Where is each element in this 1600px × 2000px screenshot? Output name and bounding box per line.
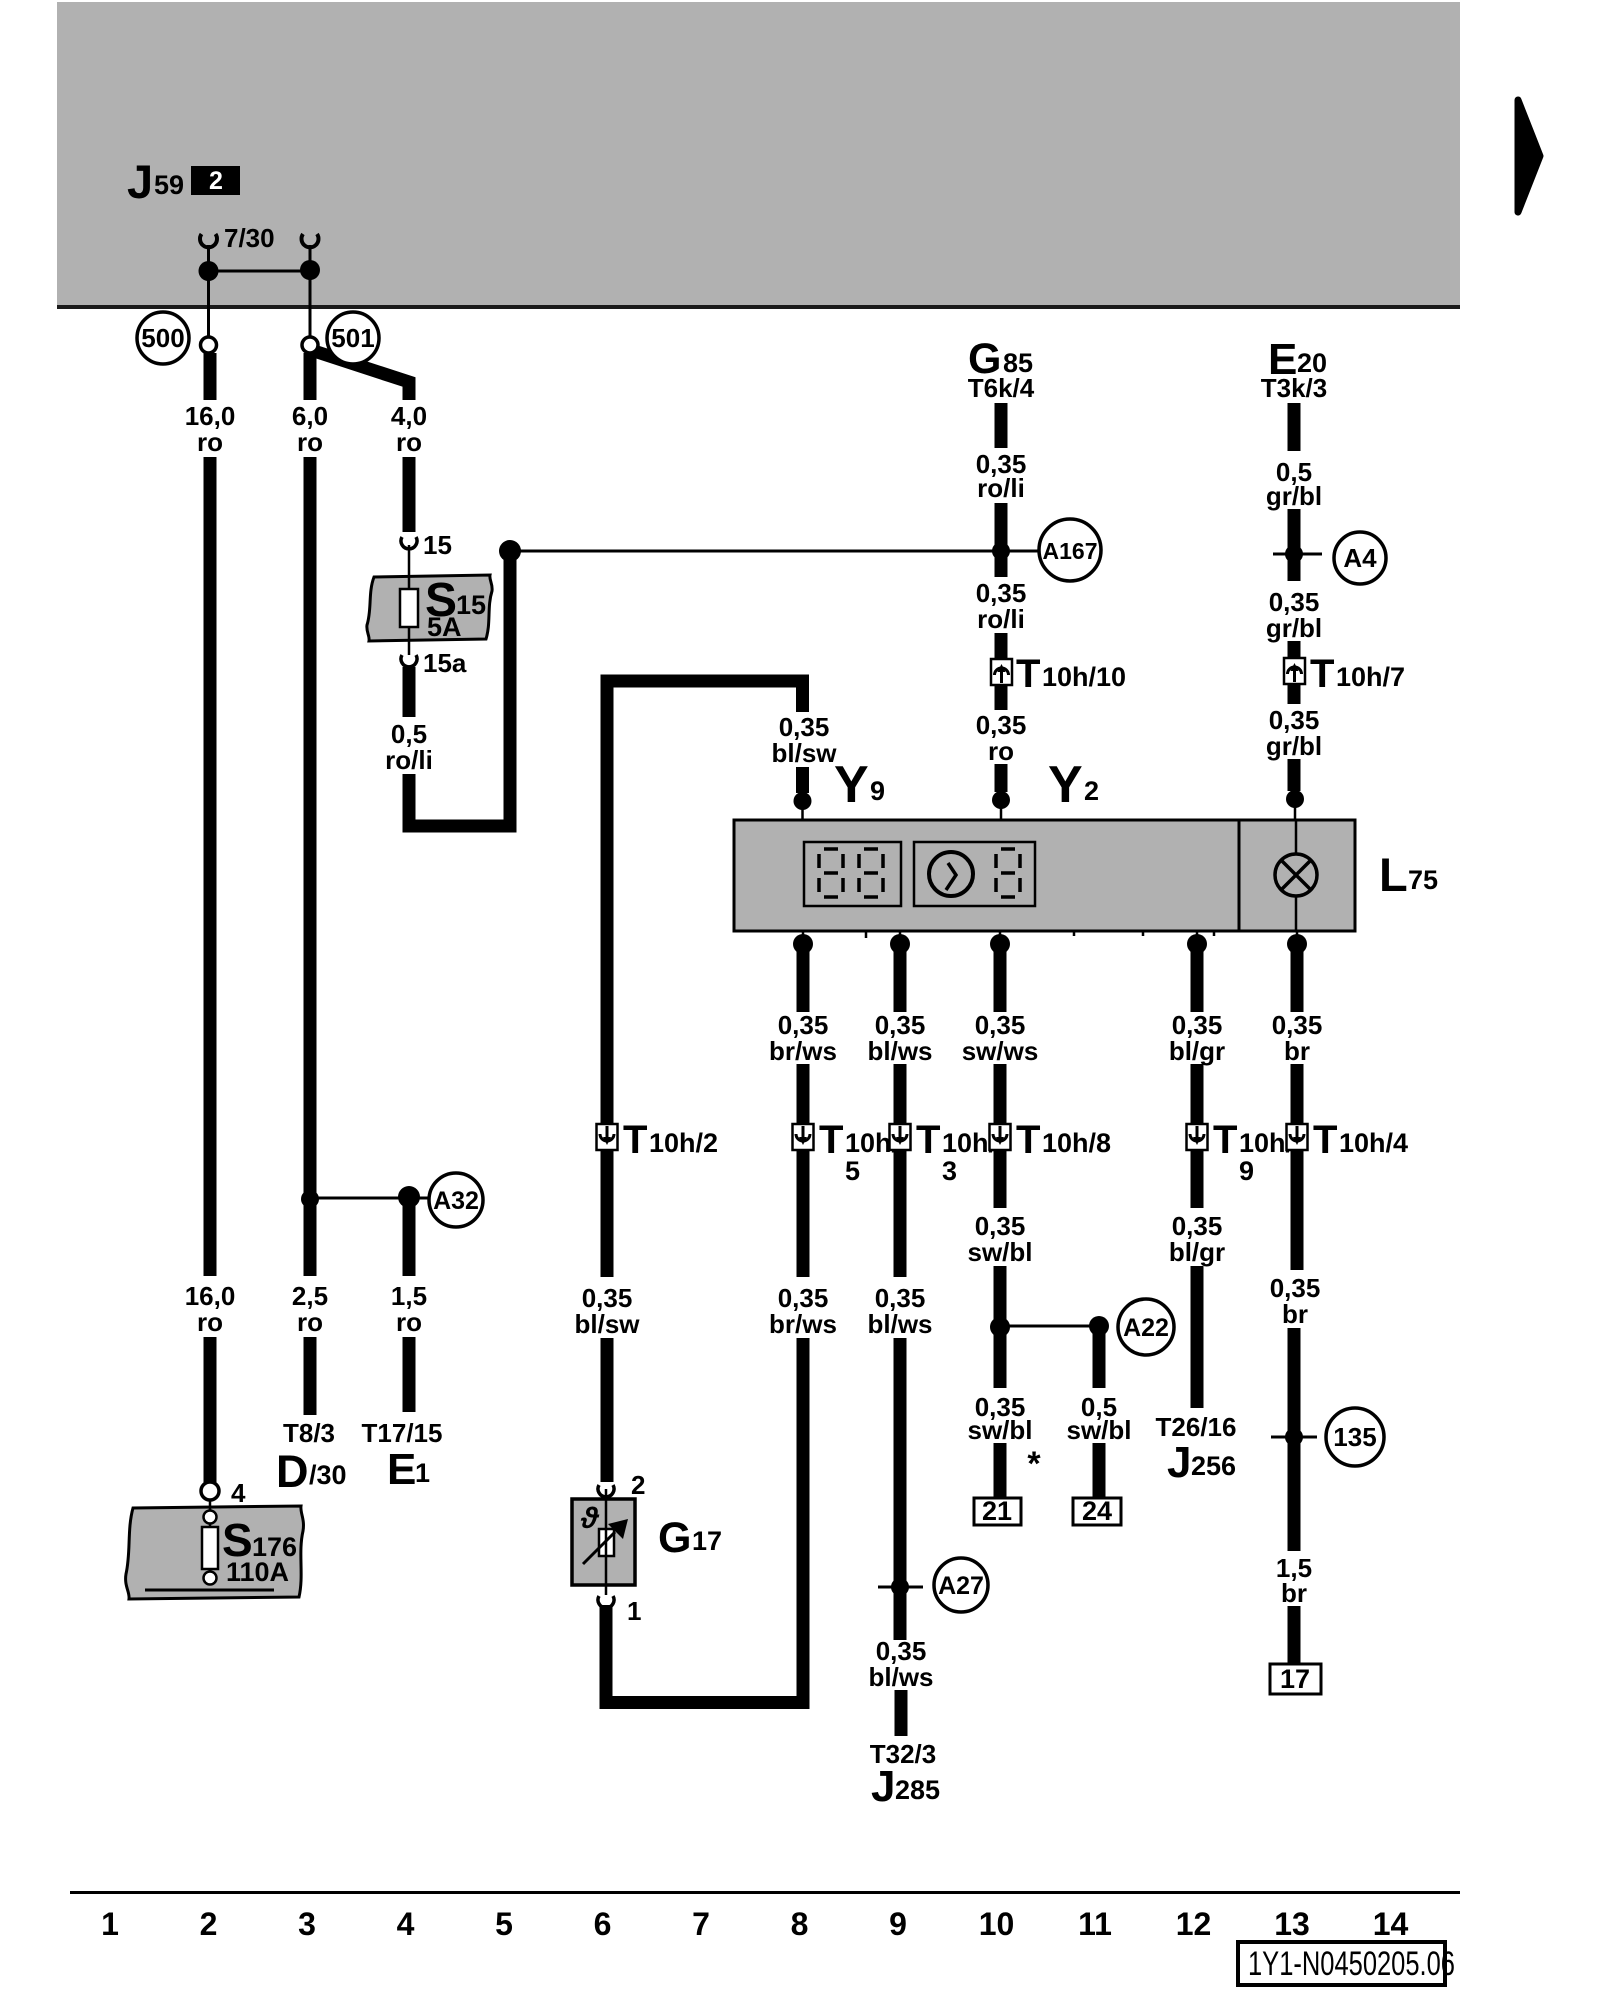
wire 0,35 ro/li to connector T10h/10: [995, 633, 1008, 660]
control unit J256 label: [1167, 1438, 1236, 1487]
svg-text:10h/2: 10h/2: [649, 1128, 718, 1158]
terminal arc pin 2 of G17: [598, 1485, 614, 1497]
label 0,35 gr/bl mid: [1266, 587, 1322, 643]
wire 0,35 br upper: [1291, 950, 1304, 1012]
svg-text:A4: A4: [1343, 543, 1377, 573]
terminal arc 15a of S15: [401, 655, 417, 667]
fuse S176 element: [202, 1500, 218, 1585]
ignition switch E1 label: [387, 1445, 430, 1494]
wire 0,35 bl/sw into Y9 pin: [796, 767, 809, 793]
label 1,5 br: [1276, 1553, 1312, 1608]
fuse S15 label: [425, 574, 486, 642]
svg-text:A27: A27: [938, 1572, 984, 1600]
svg-text:3: 3: [942, 1156, 957, 1186]
wire 0,5 gr/bl to junction A4: [1288, 509, 1301, 581]
pin dot L75 top: [1286, 790, 1304, 820]
svg-text:15: 15: [423, 530, 452, 560]
ground designation box 24: [1073, 1496, 1121, 1526]
junction crossbar A27: [878, 1586, 923, 1589]
svg-text:T: T: [1016, 652, 1040, 696]
svg-text:T: T: [1213, 1118, 1237, 1162]
svg-text:11: 11: [1078, 1906, 1112, 1942]
svg-text:bl/ws: bl/ws: [868, 1662, 933, 1692]
connector label T10h/10: [1016, 652, 1126, 696]
fuse S176 label: [222, 1514, 297, 1587]
lamp L75 symbol: [1275, 820, 1317, 931]
junction dot atop loop: [499, 540, 521, 562]
wire 16,0 ro lower run to S176: [204, 1337, 217, 1483]
svg-text:J: J: [871, 1762, 895, 1811]
fuse S15 element: [400, 545, 418, 655]
fuse S176 busbar line: [145, 1589, 274, 1592]
svg-text:D: D: [276, 1446, 309, 1497]
page continuation arrow: [1518, 100, 1540, 212]
wire 0,35 bl/ws to J285: [895, 1690, 908, 1736]
label 0,35 ro/li upper: [976, 449, 1027, 503]
svg-text:gr/bl: gr/bl: [1266, 731, 1322, 761]
svg-text:G: G: [658, 1514, 691, 1562]
label 0,35 sw/bl upper: [967, 1211, 1032, 1267]
svg-text:ro/li: ro/li: [977, 473, 1025, 503]
svg-text:T: T: [1313, 1118, 1337, 1162]
fuse S176 housing: [126, 1506, 304, 1599]
svg-text:110A: 110A: [226, 1557, 289, 1587]
wire 0,5 gr/bl from E20: [1288, 403, 1301, 451]
wire 0,5 ro/li stub below S15: [403, 667, 416, 717]
svg-text:sw/bl: sw/bl: [1066, 1415, 1131, 1445]
display Y9 seven-segment window: [804, 842, 901, 906]
sender G85 label: [968, 335, 1033, 383]
svg-text:ro: ro: [988, 736, 1014, 766]
svg-text:T6k/4: T6k/4: [968, 373, 1035, 403]
svg-text:1: 1: [101, 1906, 119, 1942]
current track baseline: [70, 1891, 1460, 1894]
svg-text:10h/8: 10h/8: [1042, 1128, 1111, 1158]
wire 0,5 ro/li loop down right and up to A167 link: [409, 555, 510, 826]
wire 2,5 ro lower run: [304, 1337, 317, 1415]
svg-text:A32: A32: [433, 1187, 479, 1215]
connection circle A32: [429, 1173, 483, 1227]
pin dot L75 bottom right: [1287, 931, 1307, 954]
wire 0,35 ro/li to junction A167: [995, 503, 1008, 577]
junction dot A22 on sw/bl wire: [990, 1317, 1010, 1337]
svg-text:8: 8: [791, 1906, 809, 1942]
wire 0,5 sw/bl to eyelet 24: [1093, 1443, 1106, 1500]
svg-text:2: 2: [631, 1470, 645, 1500]
svg-text:10: 10: [979, 1906, 1015, 1942]
svg-text:bl/sw: bl/sw: [574, 1309, 640, 1339]
wire 0,35 ro below connector: [995, 684, 1008, 710]
svg-text:sw/ws: sw/ws: [962, 1036, 1039, 1066]
svg-text:ro: ro: [297, 1307, 323, 1337]
svg-text:T: T: [1016, 1118, 1040, 1162]
sender G17 internal wire: [605, 1489, 608, 1595]
label 0,5 ro/li: [385, 719, 433, 775]
svg-text:bl/gr: bl/gr: [1169, 1237, 1225, 1267]
svg-text:6: 6: [594, 1906, 612, 1942]
svg-text:T: T: [819, 1118, 843, 1162]
svg-text:ro/li: ro/li: [385, 745, 433, 775]
svg-text:24: 24: [1082, 1496, 1112, 1526]
svg-text:bl/ws: bl/ws: [867, 1309, 932, 1339]
svg-text:T3k/3: T3k/3: [1261, 373, 1328, 403]
svg-text:E: E: [387, 1445, 416, 1494]
ground designation box 21: [974, 1496, 1021, 1526]
illumination sender E20 label: [1268, 335, 1327, 384]
wire from right 7/30 pin down to terminal 501: [309, 245, 312, 338]
svg-text:10h/7: 10h/7: [1336, 662, 1405, 692]
svg-text:A167: A167: [1043, 538, 1098, 564]
svg-text:bl/sw: bl/sw: [771, 738, 837, 768]
svg-text:ro: ro: [197, 427, 223, 457]
connector T10h/8 symbol: [990, 1124, 1011, 1150]
svg-text:12: 12: [1176, 1906, 1212, 1942]
connection circle A27: [934, 1558, 988, 1612]
svg-text:ϑ: ϑ: [580, 1502, 600, 1535]
connection circle A167: [1039, 519, 1101, 581]
junction dot start of 1,5 ro branch: [398, 1186, 420, 1208]
svg-text:sw/bl: sw/bl: [967, 1237, 1032, 1267]
wire link to A22: [1000, 1325, 1099, 1328]
svg-text:501: 501: [331, 323, 374, 353]
svg-text:br/ws: br/ws: [769, 1036, 837, 1066]
svg-text:10h/4: 10h/4: [1339, 1128, 1408, 1158]
diagram number box 1Y1-N0450205.06: [1238, 1942, 1455, 1985]
relay J59 label: [127, 155, 184, 208]
svg-text:br: br: [1281, 1578, 1307, 1608]
pin dot Y2 top: [992, 791, 1010, 820]
label 1,5 ro: [391, 1281, 427, 1337]
wire 0,35 bl/ws upper: [894, 950, 907, 1012]
wire 0,35 br to connector: [1291, 1064, 1304, 1126]
svg-text:bl/ws: bl/ws: [867, 1036, 932, 1066]
svg-text:ro: ro: [396, 1307, 422, 1337]
label 16,0 ro upper: [185, 401, 236, 457]
svg-text:Y: Y: [834, 756, 869, 814]
wire 4,0 ro diagonal branch from terminal 501: [311, 350, 409, 400]
junction dot A32 on 6,0 wire: [301, 1190, 319, 1208]
wire 0,35 ro/li from G85: [995, 403, 1008, 448]
svg-text:*: *: [1027, 1445, 1041, 1483]
wire 4,0 ro down to fuse S15: [403, 457, 416, 532]
wiring harness gray band: [57, 2, 1460, 309]
wire 0,35 bl/gr upper: [1191, 950, 1204, 1012]
svg-text:285: 285: [895, 1775, 940, 1805]
svg-text:5A: 5A: [427, 612, 462, 642]
pin dot L75 bottom left: [1187, 931, 1207, 954]
unused pin ticks on housing bottom edge: [866, 931, 1214, 938]
clock Y2 window: [914, 842, 1035, 906]
svg-text:135: 135: [1333, 1422, 1376, 1452]
connector T10h/2 symbol: [597, 1124, 618, 1150]
label 0,35 ro/li lower: [976, 578, 1027, 634]
wire 0,35 br/ws below connector: [797, 1149, 810, 1277]
wire 1,5 br to eyelet 17: [1288, 1606, 1301, 1666]
wire from left 7/30 pin down to terminal 500: [207, 245, 210, 338]
label 0,35 sw/ws: [962, 1010, 1039, 1066]
wire 6,0 ro upper stub: [304, 353, 317, 400]
svg-text:4: 4: [397, 1906, 415, 1942]
label 0,35 br/ws lower: [769, 1283, 837, 1339]
svg-text:br/ws: br/ws: [769, 1309, 837, 1339]
wire 0,35 bl/ws below connector: [894, 1149, 907, 1277]
wire 0,35 sw/bl through junction A22: [994, 1266, 1007, 1388]
label 4,0 ro: [391, 401, 427, 457]
svg-text:2: 2: [209, 167, 223, 195]
terminal eyelet 4 on S176: [201, 1482, 219, 1500]
wire 0,35 bl/gr to connector: [1191, 1064, 1204, 1126]
svg-text:17: 17: [692, 1526, 722, 1556]
wire 0,35 gr/bl below connector: [1288, 684, 1301, 704]
wire 1,5 ro branch run: [403, 1203, 416, 1276]
svg-text:J: J: [1167, 1438, 1191, 1487]
wire jumper linking the two 7/30 pins: [209, 270, 311, 273]
svg-text:21: 21: [982, 1496, 1012, 1526]
svg-text:5: 5: [495, 1906, 513, 1942]
wire 0,35 br/ws to connector: [797, 1064, 810, 1126]
label 0,35 sw/bl lower: [967, 1392, 1032, 1445]
connector label T10h/ 5: [819, 1118, 900, 1186]
terminal arc 7/30 right pin of J59: [301, 234, 318, 247]
svg-text:A22: A22: [1123, 1314, 1169, 1342]
ground designation box 17: [1270, 1664, 1321, 1694]
terminal eyelet 500: [201, 337, 217, 353]
connector label T10h/ 9: [1213, 1118, 1294, 1186]
svg-text:14: 14: [1373, 1906, 1409, 1942]
svg-text:L: L: [1379, 848, 1408, 901]
current track numbers 1-14: [101, 1906, 1408, 1942]
svg-text:7: 7: [692, 1906, 710, 1942]
wire 0,35 sw/bl to eyelet 21: [994, 1443, 1007, 1500]
wire 0,35 br below connector: [1291, 1149, 1304, 1270]
wire 0,35 bl/sw down to G17 pin 2: [601, 1338, 614, 1482]
svg-text:3: 3: [298, 1906, 316, 1942]
label 0,35 ro: [976, 710, 1027, 766]
label 0,35 br/ws upper: [769, 1010, 837, 1066]
pin dot Y9 bottom 2: [890, 931, 910, 954]
label 16,0 ro lower: [185, 1281, 236, 1337]
svg-text:T: T: [916, 1118, 940, 1162]
svg-text:2: 2: [200, 1906, 218, 1942]
wire 6,0 ro main run: [304, 457, 317, 1276]
label 0,35 bl/ws mid: [867, 1283, 932, 1339]
junction dot A167: [992, 542, 1010, 560]
svg-text:500: 500: [141, 323, 184, 353]
junction dot A27: [891, 1578, 909, 1596]
svg-text:2: 2: [1084, 776, 1099, 806]
connector T10h/3 symbol: [890, 1124, 911, 1150]
wire 0,35 bl/sw below T10h/2: [601, 1149, 614, 1277]
connector label T10h/7: [1310, 652, 1405, 696]
relay J59 slot number 2: [191, 166, 240, 195]
svg-text:13: 13: [1274, 1906, 1310, 1942]
wire 0,35 bl/sw loop from Y9 up and left to T10h/2 run: [607, 681, 803, 1126]
svg-text:T8/3: T8/3: [283, 1418, 335, 1448]
junction crossbar A4: [1273, 553, 1322, 556]
label 0,35 bl/ws upper: [867, 1010, 932, 1066]
svg-text:Y: Y: [1048, 756, 1083, 814]
terminal arc 7/30 left pin of J59: [200, 234, 217, 247]
wire 16,0 ro main run: [204, 457, 217, 1276]
junction dot 135: [1285, 1428, 1303, 1446]
wire 0,35 br/ws down to G17 loop corner: [606, 1338, 803, 1703]
wire 0,35 ro into Y2 pin: [995, 764, 1008, 792]
connection circle A22: [1118, 1299, 1174, 1355]
svg-text:bl/gr: bl/gr: [1169, 1036, 1225, 1066]
sender G17 thermistor symbol: [580, 1502, 628, 1564]
wire 0,35 gr/bl to connector T10h/7: [1288, 641, 1301, 659]
label 0,35 br upper: [1272, 1010, 1323, 1066]
starter D/30 label: [276, 1446, 347, 1497]
svg-text:sw/bl: sw/bl: [967, 1415, 1032, 1445]
connection circle 135: [1326, 1408, 1384, 1466]
label 0,35 gr/bl lower: [1266, 705, 1322, 761]
svg-text:256: 256: [1191, 1451, 1236, 1481]
svg-text:4: 4: [231, 1478, 246, 1508]
wire 0,35 sw/bl below connector: [994, 1149, 1007, 1208]
fuse S15 housing: [367, 575, 492, 641]
junction dot A4: [1285, 545, 1303, 563]
wire 0,35 bl/ws to connector: [894, 1064, 907, 1126]
connector T10h/9 symbol: [1187, 1124, 1208, 1150]
svg-text:15a: 15a: [423, 648, 467, 678]
terminal arc 15 of S15: [401, 537, 417, 549]
svg-text:1: 1: [415, 1458, 430, 1488]
pin dot Y2 bottom: [990, 931, 1010, 954]
wire 0,35 sw/ws upper: [994, 950, 1007, 1012]
label 0,35 bl/gr upper: [1169, 1010, 1225, 1066]
connector T10h/4 symbol: [1287, 1124, 1308, 1150]
svg-text:T: T: [623, 1118, 647, 1162]
label 0,35 bl/ws lower: [868, 1636, 933, 1692]
svg-text:17: 17: [1280, 1664, 1310, 1694]
wire link to A32: [310, 1197, 428, 1200]
connector T10h/10 symbol: [991, 659, 1012, 685]
svg-text:9: 9: [889, 1906, 907, 1942]
label 0,35 bl/sw lower: [574, 1283, 640, 1339]
connection circle A4: [1334, 532, 1386, 584]
svg-text:T17/15: T17/15: [362, 1418, 443, 1448]
control unit J285 label: [871, 1762, 940, 1811]
pin dot Y9 top: [794, 792, 812, 820]
wire 0,35 bl/gr to J256: [1191, 1266, 1204, 1408]
sender G17 housing: [572, 1499, 635, 1585]
junction dot left 7/30: [199, 261, 219, 281]
svg-text:ro: ro: [297, 427, 323, 457]
label 2,5 ro: [292, 1281, 328, 1337]
svg-text:ro: ro: [396, 427, 422, 457]
terminal number circle 501: [327, 312, 379, 364]
pin dot Y9 bottom 1: [793, 931, 813, 954]
connector T10h/5 symbol: [793, 1124, 814, 1150]
svg-text:75: 75: [1408, 865, 1438, 895]
wire 1,5 ro lower run: [403, 1337, 416, 1412]
svg-text:1: 1: [627, 1596, 641, 1626]
svg-text:10h/10: 10h/10: [1042, 662, 1126, 692]
junction dot right 7/30: [300, 260, 320, 280]
label 0,35 bl/gr lower: [1169, 1211, 1225, 1267]
svg-text:ro: ro: [197, 1307, 223, 1337]
connector T10h/7 symbol: [1284, 658, 1305, 684]
svg-text:9: 9: [870, 776, 885, 806]
connector label T10h/ 3: [916, 1118, 997, 1186]
svg-text:gr/bl: gr/bl: [1266, 481, 1322, 511]
wire 16,0 ro upper stub: [204, 353, 217, 400]
label L75: [1379, 848, 1438, 901]
wire 0,5 sw/bl branch: [1093, 1330, 1106, 1388]
junction dot start of 0,5 sw/bl branch: [1089, 1316, 1109, 1336]
label G17: [658, 1514, 722, 1562]
terminal arc pin 1 of G17: [598, 1596, 614, 1608]
svg-text:ro/li: ro/li: [977, 604, 1025, 634]
connector label T10h/4: [1313, 1118, 1408, 1162]
wire 0,35 sw/ws to connector: [994, 1064, 1007, 1126]
svg-text:br: br: [1282, 1299, 1308, 1329]
junction crossbar 135: [1271, 1436, 1317, 1439]
wire 0,35 br through junction 135: [1288, 1328, 1301, 1551]
svg-text:59: 59: [154, 170, 184, 200]
control unit housing (digital clock Y2 / display Y9 / lamp L75): [734, 820, 1355, 931]
wire 0,35 gr/bl into L75 pin: [1288, 759, 1301, 791]
svg-text:9: 9: [1239, 1156, 1254, 1186]
svg-text:5: 5: [845, 1156, 860, 1186]
label 0,5 gr/bl: [1266, 457, 1322, 511]
label Y9: [834, 756, 885, 814]
connector label T10h/2: [623, 1118, 718, 1162]
connector label T10h/8: [1016, 1118, 1111, 1162]
svg-text:7/30: 7/30: [224, 223, 275, 253]
label 0,35 br lower: [1270, 1273, 1321, 1329]
label 0,35 bl/sw above Y9: [771, 712, 837, 768]
svg-text:gr/bl: gr/bl: [1266, 613, 1322, 643]
label Y2: [1048, 756, 1099, 814]
svg-text:J: J: [127, 155, 153, 208]
wire 0,35 bl/gr below connector: [1191, 1149, 1204, 1208]
wire 0,35 bl/ws through A27: [894, 1338, 907, 1640]
wire link from loop to A167 junction: [510, 550, 1039, 553]
terminal eyelet 501: [302, 337, 318, 353]
label 6,0 ro: [292, 401, 328, 457]
terminal number circle 500: [137, 312, 189, 364]
wire 0,35 br/ws upper: [797, 950, 810, 1012]
svg-text:/30: /30: [309, 1460, 347, 1490]
svg-text:br: br: [1284, 1036, 1310, 1066]
svg-text:1Y1-N0450205.06: 1Y1-N0450205.06: [1248, 1945, 1455, 1983]
svg-text:T: T: [1310, 652, 1334, 696]
label 0,5 sw/bl: [1066, 1392, 1131, 1445]
